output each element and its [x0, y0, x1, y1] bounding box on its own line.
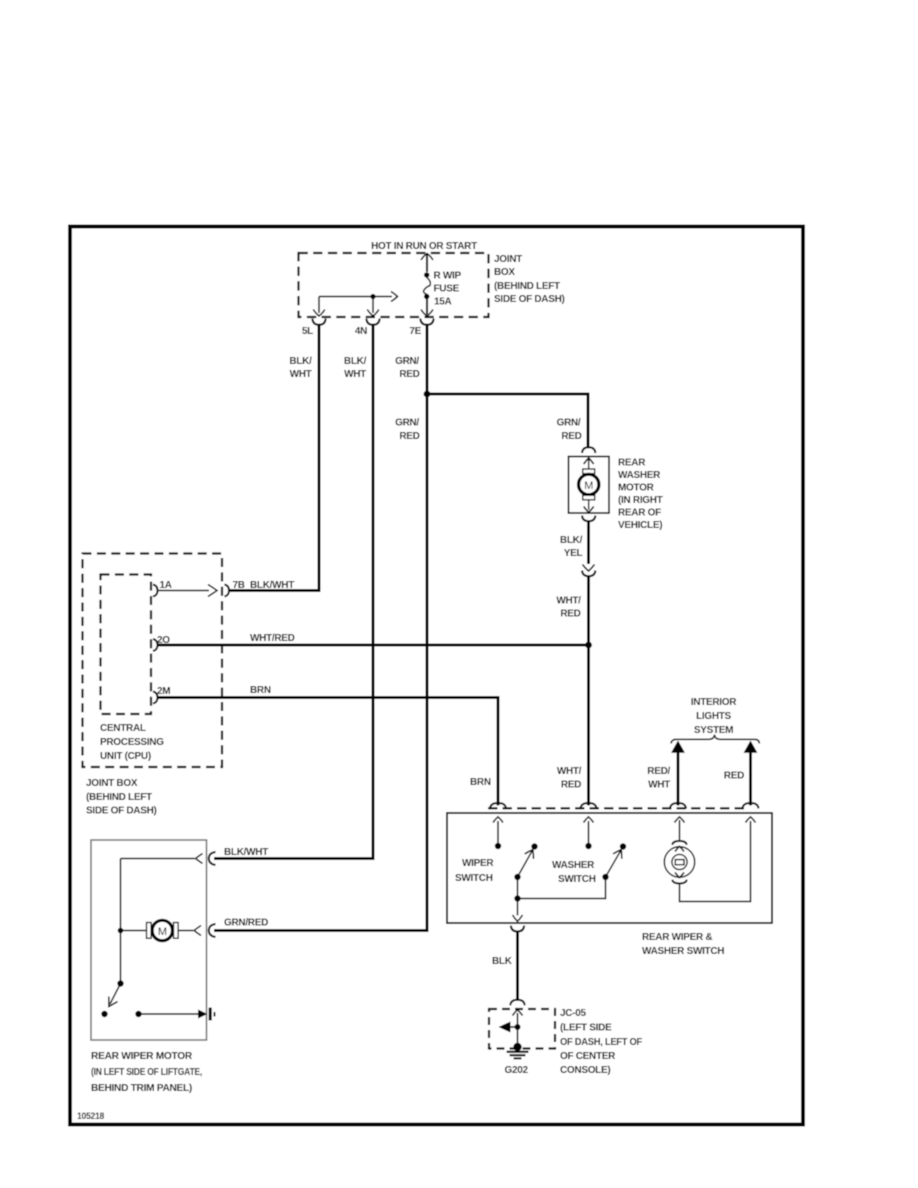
svg-text:BRN: BRN [470, 777, 491, 788]
svg-text:WHT: WHT [344, 369, 366, 380]
svg-text:WHT/: WHT/ [556, 596, 581, 607]
illumination bulb [664, 817, 694, 884]
wire WHT/RED down to switch [587, 645, 590, 806]
svg-text:7B: 7B [233, 580, 245, 591]
connector cup at washer motor top [582, 447, 595, 453]
wire 7E GRN/RED down to rear wiper motor [214, 325, 427, 931]
washer switch blade [602, 843, 626, 880]
arrow to interior lights (RED) [744, 741, 758, 753]
svg-text:SWITCH: SWITCH [558, 874, 596, 885]
svg-text:RED: RED [561, 431, 581, 442]
wire label GRN/RED (washer branch) [557, 418, 582, 443]
wire label BLK/YEL [560, 535, 583, 559]
svg-text:15A: 15A [434, 297, 452, 308]
svg-text:JOINT: JOINT [494, 254, 522, 265]
interior lights system label [691, 697, 737, 736]
wire label BLK/WHT (5L) [289, 356, 312, 380]
connector cup GRN/RED at motor box [209, 924, 216, 937]
wire RED/WHT [677, 752, 680, 806]
connector cup BLK exit [511, 926, 524, 932]
connector cup RED/WHT entry [670, 803, 686, 809]
svg-text:(BEHIND LEFT: (BEHIND LEFT [86, 792, 152, 803]
svg-text:OF CENTER: OF CENTER [560, 1051, 616, 1062]
chassis ground at motor [198, 1008, 215, 1021]
svg-text:BOX: BOX [494, 267, 515, 278]
svg-text:JC-05: JC-05 [560, 1008, 586, 1019]
svg-text:CENTRAL: CENTRAL [100, 723, 146, 734]
terminal 7E [409, 319, 433, 338]
wiper switch contact arrow [493, 817, 503, 849]
terminal 2O cup [153, 639, 158, 651]
svg-text:WASHER: WASHER [618, 470, 661, 481]
svg-text:4N: 4N [355, 326, 367, 337]
svg-text:REAR WIPER MOTOR: REAR WIPER MOTOR [91, 1051, 193, 1062]
wire WHT/RED (washer to junction) [587, 577, 590, 646]
wire BLK [516, 932, 519, 1000]
wiper switch blade [514, 843, 537, 901]
junction node on 7E wire [424, 391, 431, 398]
svg-text:105218: 105218 [77, 1111, 104, 1122]
svg-text:BRN: BRN [250, 685, 271, 696]
svg-text:(LEFT SIDE: (LEFT SIDE [560, 1023, 612, 1034]
svg-text:WIPER: WIPER [462, 858, 494, 869]
svg-text:REAR WIPER &: REAR WIPER & [642, 932, 712, 943]
wire WHT/RED horizontal [158, 644, 589, 647]
connector cup at JC-05 [510, 1000, 524, 1006]
svg-text:(IN RIGHT: (IN RIGHT [618, 495, 663, 506]
connector cup at washer motor bottom [582, 516, 595, 522]
svg-text:7E: 7E [409, 326, 421, 337]
washer switch label [552, 860, 596, 885]
wire branch to rear washer motor [427, 394, 588, 447]
terminal 7B cup [225, 585, 230, 597]
svg-text:R WIP: R WIP [434, 271, 462, 282]
svg-text:YEL: YEL [564, 548, 583, 559]
svg-text:1A: 1A [160, 580, 172, 591]
brace to interior lights [671, 735, 759, 744]
svg-text:REAR OF: REAR OF [618, 508, 661, 519]
washer switch contact arrow [584, 817, 594, 849]
wire label GRN/RED (below junction) [395, 418, 420, 443]
rear washer motor M1 [569, 457, 610, 514]
svg-text:OF DASH, LEFT OF: OF DASH, LEFT OF [560, 1037, 642, 1048]
svg-text:REAR: REAR [618, 458, 646, 469]
svg-text:RED: RED [561, 780, 581, 791]
joint box internal bus wire [313, 292, 397, 317]
svg-text:BLK/WHT: BLK/WHT [224, 847, 268, 858]
rear wiper motor label [91, 1051, 202, 1094]
svg-text:WASHER: WASHER [552, 860, 595, 871]
svg-text:WHT: WHT [290, 369, 312, 380]
rear wiper motor box [91, 840, 207, 1040]
connector cup BLK/WHT at motor box [209, 852, 216, 865]
wire label GRN/RED (7E upper) [395, 356, 420, 380]
motor internal wire BLK/WHT row [121, 854, 203, 864]
switch connector dashed strip [488, 807, 746, 809]
rear wiper & washer switch box [447, 813, 772, 923]
wire 1A to 7B (arrow) [158, 585, 218, 597]
JC-05 label [560, 1008, 642, 1076]
wire label WHT/RED (upper) [556, 596, 581, 620]
CPU inner dashed box [101, 575, 152, 715]
svg-text:SIDE OF DASH): SIDE OF DASH) [494, 294, 565, 305]
inline connector (male arrow into female cup) [582, 565, 595, 577]
svg-text:VEHICLE): VEHICLE) [618, 520, 662, 531]
wiper motor M2 [121, 920, 202, 940]
terminal 4N [355, 319, 380, 338]
wire 5L BLK/WHT down to 7B [230, 325, 319, 591]
svg-text:SIDE OF DASH): SIDE OF DASH) [86, 806, 157, 817]
terminal 5L [302, 319, 326, 338]
svg-text:UNIT (CPU): UNIT (CPU) [100, 751, 151, 762]
rear washer motor label [618, 458, 663, 532]
junction node at motor [118, 928, 124, 934]
svg-text:GRN/: GRN/ [395, 356, 419, 367]
svg-text:RED: RED [399, 369, 419, 380]
svg-text:BEHIND TRIM PANEL): BEHIND TRIM PANEL) [91, 1083, 192, 1094]
svg-text:RED: RED [399, 431, 419, 442]
fuse value label [434, 271, 462, 308]
svg-text:WHT: WHT [648, 780, 670, 791]
CPU joint box (dashed outer) [83, 554, 223, 768]
svg-text:G202: G202 [505, 1065, 529, 1076]
svg-text:BLK: BLK [492, 956, 513, 967]
svg-text:RED: RED [724, 771, 744, 782]
svg-text:HOT IN RUN OR START: HOT IN RUN OR START [371, 241, 477, 252]
svg-text:GRN/: GRN/ [557, 418, 581, 429]
svg-text:GRN/RED: GRN/RED [224, 918, 268, 929]
switch box label [642, 932, 724, 957]
svg-text:BLK/: BLK/ [344, 356, 367, 367]
svg-text:INTERIOR: INTERIOR [691, 697, 737, 708]
svg-text:SWITCH: SWITCH [455, 873, 493, 884]
svg-text:(IN LEFT SIDE OF LIFTGATE,: (IN LEFT SIDE OF LIFTGATE, [91, 1067, 202, 1078]
svg-text:PROCESSING: PROCESSING [100, 737, 164, 748]
connector cup WHT/RED entry [581, 803, 597, 809]
svg-text:FUSE: FUSE [434, 284, 460, 295]
svg-text:2M: 2M [157, 686, 170, 697]
terminal 1A cup [153, 585, 158, 597]
wire BLK/YEL [587, 522, 590, 565]
arrow to interior lights (RED/WHT) [671, 741, 685, 753]
motor internal vertical wire [120, 859, 122, 984]
svg-text:CONSOLE): CONSOLE) [560, 1065, 610, 1076]
svg-text:SYSTEM: SYSTEM [694, 725, 733, 736]
svg-text:BLK/: BLK/ [560, 535, 583, 546]
motor park switch blade [101, 980, 123, 1017]
svg-text:WHT/RED: WHT/RED [250, 633, 295, 644]
JC-05 dashed box [489, 1009, 555, 1049]
pin label 7B and wire label BLK/WHT [233, 580, 295, 591]
svg-text:LIGHTS: LIGHTS [696, 711, 731, 722]
motor ground wire [135, 1011, 198, 1017]
svg-text:RED: RED [560, 609, 580, 620]
wire label WHT/RED (lower) [557, 766, 582, 791]
wire label RED/WHT [647, 766, 670, 791]
diagram border frame [70, 227, 803, 1125]
svg-text:5L: 5L [302, 326, 313, 337]
joint box label (left) [86, 778, 157, 817]
CPU label [100, 723, 164, 762]
joint box label [494, 254, 565, 305]
svg-text:M: M [158, 926, 167, 938]
svg-text:JOINT BOX: JOINT BOX [86, 778, 138, 789]
svg-text:M: M [584, 480, 593, 492]
svg-text:WHT/: WHT/ [557, 766, 582, 777]
joint box (dashed, top) [299, 253, 489, 317]
svg-text:BLK/WHT: BLK/WHT [250, 580, 294, 591]
svg-text:RED/: RED/ [647, 766, 670, 777]
svg-text:MOTOR: MOTOR [618, 483, 655, 494]
terminal 2M cup [153, 692, 158, 704]
svg-text:WASHER SWITCH: WASHER SWITCH [642, 946, 724, 957]
link wire to washer switch [518, 878, 606, 899]
wire BRN horizontal then down to switch [158, 698, 499, 806]
junction node WHT/RED [585, 642, 592, 649]
bulb return wire [680, 817, 756, 902]
svg-text:GRN/: GRN/ [395, 418, 419, 429]
svg-text:(BEHIND LEFT: (BEHIND LEFT [494, 281, 560, 292]
connector cup RED entry [743, 803, 759, 809]
wire RED [749, 752, 752, 806]
JC-05 internal wire and arrows [499, 1010, 523, 1046]
wire label BLK/WHT (4N) [344, 356, 367, 380]
wiper switch label [455, 858, 494, 884]
wire 4N BLK/WHT down to rear wiper motor [214, 325, 373, 859]
fuse F1 R WIP FUSE 15A [421, 254, 433, 317]
ground G202 [505, 1043, 529, 1076]
switch output arrow (BLK) [513, 899, 523, 922]
connector cup BRN entry [490, 803, 506, 809]
svg-text:BLK/: BLK/ [289, 356, 312, 367]
